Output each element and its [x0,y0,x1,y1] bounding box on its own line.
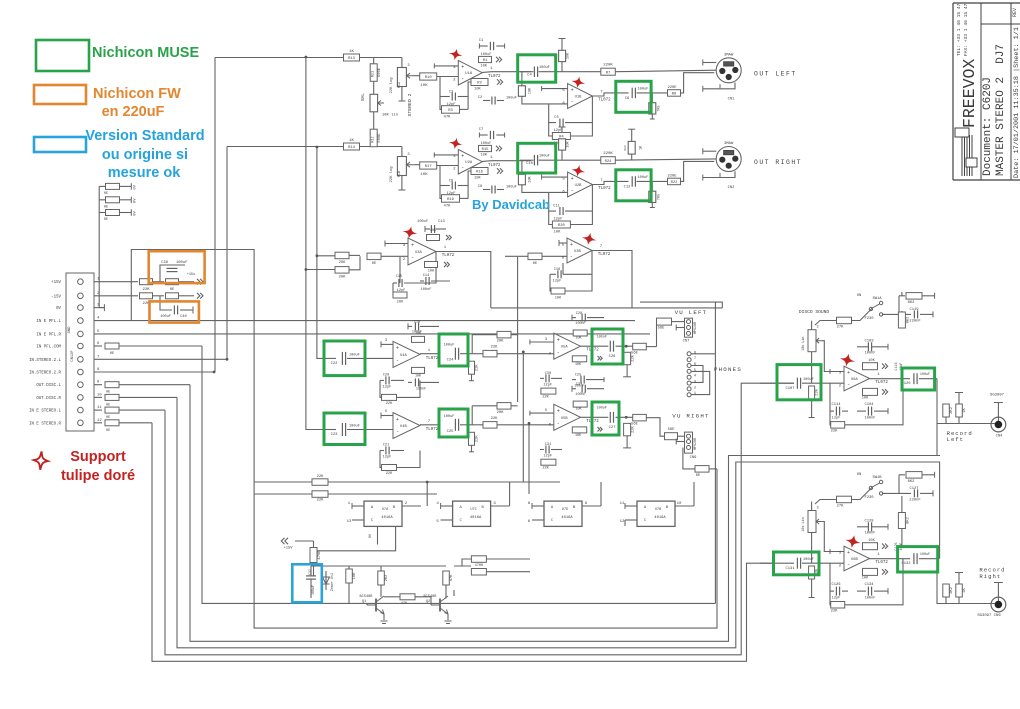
svg-text:10K: 10K [480,65,487,69]
svg-text:6: 6 [694,363,696,367]
svg-text:10K: 10K [567,140,571,147]
svg-text:12: 12 [620,520,625,524]
svg-text:22K: 22K [632,425,636,433]
svg-text:10K: 10K [415,374,422,378]
svg-text:BC548B: BC548B [424,595,438,599]
svg-text:TL072: TL072 [598,253,611,257]
svg-text:-: - [570,254,573,260]
svg-text:MASTER STEREO 2 DJ7: MASTER STEREO 2 DJ7 [995,44,1007,176]
svg-text:5: 5 [694,369,696,373]
svg-text:22K: 22K [386,402,393,406]
svg-text:ON: ON [857,294,862,298]
svg-text:100nF: 100nF [416,387,426,391]
svg-text:22K: 22K [491,417,499,421]
svg-text:100uF: 100uF [349,353,360,357]
svg-text:R1: R1 [483,59,488,63]
svg-text:F230: F230 [864,317,874,321]
svg-text:C27: C27 [609,426,616,430]
svg-text:U7B: U7B [655,508,662,512]
svg-text:C8: C8 [478,185,482,189]
svg-text:4016A: 4016A [470,516,482,520]
svg-text:C126: C126 [831,583,841,587]
svg-text:12pF: 12pF [832,417,841,421]
svg-text:100uF: 100uF [803,378,814,382]
svg-text:47K: 47K [401,602,408,606]
svg-text:220E: 220E [667,86,677,90]
svg-text:100uF: 100uF [638,176,649,180]
svg-text:Q2: Q2 [426,600,430,604]
svg-text:tulipe doré: tulipe doré [61,468,135,484]
svg-text:100uF: 100uF [444,415,455,419]
svg-text:U2B: U2B [575,184,583,188]
svg-text:R13: R13 [348,57,356,61]
svg-text:+: + [570,242,573,248]
svg-text:OUT.DISC.L: OUT.DISC.L [36,384,61,388]
svg-text:-: - [571,187,574,193]
svg-text:mesure ok: mesure ok [108,165,181,181]
svg-text:10K: 10K [575,408,582,412]
svg-text:10K: 10K [480,154,487,158]
svg-text:100uF: 100uF [311,585,315,595]
svg-text:20K: 20K [339,276,347,280]
svg-text:4: 4 [694,375,696,379]
svg-text:C4: C4 [527,74,532,78]
svg-text:10K: 10K [862,577,869,581]
svg-text:CN12F: CN12F [71,350,75,362]
svg-text:10K: 10K [474,176,481,180]
svg-text:12pF: 12pF [543,455,552,459]
svg-text:0E: 0E [104,218,108,222]
svg-text:TL072: TL072 [442,254,455,258]
svg-text:100uF: 100uF [803,558,814,562]
svg-text:0V: 0V [134,198,138,203]
svg-text:Nichicon FW: Nichicon FW [93,86,181,102]
svg-text:56E: 56E [631,423,638,427]
svg-text:Zener 6v2: Zener 6v2 [330,573,335,591]
svg-text:C25: C25 [447,430,455,434]
svg-text:OUT.DISC.R: OUT.DISC.R [36,397,61,401]
svg-text:220K: 220K [603,64,613,68]
svg-text:12pF: 12pF [383,385,392,389]
svg-text:TL072: TL072 [598,187,611,191]
svg-text:8K2: 8K2 [906,516,910,524]
svg-text:7: 7 [694,357,696,361]
svg-text:F230: F230 [864,496,874,500]
svg-text:C14: C14 [423,274,429,278]
svg-text:C40: C40 [180,315,188,319]
svg-text:Support: Support [70,449,126,465]
svg-text:C31: C31 [545,443,551,447]
svg-text:MPS20R: MPS20R [694,438,698,450]
svg-text:13: 13 [347,520,352,524]
svg-text:C107: C107 [785,387,794,391]
svg-text:10K: 10K [529,175,533,182]
svg-text:22K log: 22K log [389,78,394,94]
svg-text:22K: 22K [816,388,820,396]
svg-text:10K: 10K [420,173,428,177]
svg-text:100uF: 100uF [506,186,517,190]
svg-text:R17: R17 [425,165,432,169]
svg-text:R11: R11 [372,71,376,77]
svg-text:100uF: 100uF [444,344,455,348]
svg-text:10K: 10K [474,87,481,91]
svg-text:+15u: +15u [187,273,196,277]
svg-text:56E: 56E [631,352,638,356]
svg-text:10K: 10K [430,229,437,233]
svg-text:22K: 22K [542,466,549,470]
svg-text:C11: C11 [553,205,560,209]
svg-text:R3: R3 [448,109,453,113]
svg-text:11: 11 [97,406,102,410]
svg-text:C5: C5 [554,116,558,120]
svg-text:470E: 470E [318,550,322,560]
svg-text:C131: C131 [785,567,795,571]
svg-text:3MAW: 3MAW [724,142,734,146]
svg-text:PCB: PCB [397,171,401,177]
svg-text:8K2: 8K2 [906,316,910,324]
svg-text:100nF: 100nF [575,322,585,326]
svg-text:R12: R12 [372,136,376,142]
svg-text:12pF: 12pF [553,280,562,284]
svg-text:U5B: U5B [561,417,569,421]
svg-text:1: 1 [694,392,696,396]
svg-text:-15V: -15V [51,295,61,299]
svg-text:12pF: 12pF [447,103,456,107]
svg-text:+: + [396,346,399,352]
svg-text:IN E PFL.L: IN E PFL.L [36,320,61,324]
svg-text:U6B: U6B [851,558,859,562]
svg-text:22K: 22K [317,499,325,503]
svg-text:+: + [461,153,464,159]
svg-text:R20: R20 [558,224,566,228]
svg-text:100uF: 100uF [597,336,607,340]
svg-text:1K: 1K [349,50,354,54]
svg-text:10k Lin: 10k Lin [801,337,806,351]
svg-text:TL072: TL072 [488,164,501,168]
svg-text:C16: C16 [554,268,560,272]
svg-text:10K: 10K [575,336,582,340]
svg-text:10K: 10K [415,332,422,336]
svg-text:-: - [396,358,399,364]
svg-text:C30: C30 [545,372,551,376]
svg-text:IN.STEREO.2.R: IN.STEREO.2.R [29,372,61,376]
svg-text:100uF: 100uF [160,315,171,319]
svg-text:+: + [571,176,574,182]
svg-text:10K: 10K [567,52,571,59]
svg-text:U4A: U4A [400,354,408,358]
svg-text:3: 3 [694,381,696,385]
svg-text:56E: 56E [668,428,676,432]
svg-text:OUT RIGHT: OUT RIGHT [754,159,802,166]
svg-text:TL072: TL072 [598,99,611,103]
svg-text:U6A: U6A [851,378,859,382]
svg-text:10k Lin: 10k Lin [801,517,806,531]
svg-text:22K: 22K [476,435,480,443]
svg-text:R10: R10 [425,76,433,80]
svg-text:C134: C134 [864,583,874,587]
svg-text:22K: 22K [542,395,549,399]
svg-text:TL072: TL072 [875,381,888,385]
svg-text:C6: C6 [625,97,630,101]
svg-text:C114: C114 [831,403,841,407]
svg-text:11: 11 [620,502,625,506]
svg-text:CN7: CN7 [683,340,690,344]
svg-text:IN.STEREO.2.L: IN.STEREO.2.L [29,359,61,363]
svg-text:IN E PFL.R: IN E PFL.R [36,333,61,337]
svg-text:R24: R24 [605,160,613,164]
svg-text:600E: 600E [378,67,382,77]
svg-text:1K: 1K [963,408,967,413]
svg-text:100uF: 100uF [920,553,930,557]
svg-text:BC548B: BC548B [360,595,374,599]
svg-text:0E: 0E [106,429,110,433]
svg-text:+: + [411,243,414,249]
svg-text:100uF: 100uF [176,261,188,265]
svg-text:Date: 17/01/2001 11:35:18 |She: Date: 17/01/2001 11:35:18 |Sheet: 1/1 [1013,27,1020,178]
svg-text:1K: 1K [963,588,967,593]
svg-text:22K: 22K [831,610,839,614]
svg-text:10K: 10K [862,397,869,401]
svg-text:0V: 0V [134,184,138,189]
svg-text:C25: C25 [575,373,581,377]
svg-text:20K: 20K [497,411,505,415]
svg-text:C132: C132 [901,562,911,566]
svg-text:VU RIGHT: VU RIGHT [672,412,709,419]
svg-text:100nF: 100nF [421,288,432,292]
svg-text:+: + [557,409,560,415]
svg-text:C24: C24 [447,359,455,363]
svg-text:U7D: U7D [562,508,568,512]
svg-text:47K: 47K [443,116,451,120]
svg-text:C20: C20 [383,373,389,377]
svg-text:-: - [411,255,414,261]
svg-text:C103: C103 [864,340,874,344]
svg-text:C2: C2 [478,96,482,100]
svg-text:22K: 22K [386,472,393,476]
svg-text:C3: C3 [449,91,453,95]
svg-text:100uF: 100uF [638,88,649,92]
svg-text:C32: C32 [309,569,313,575]
svg-text:10: 10 [97,393,102,397]
svg-text:R15: R15 [482,148,490,152]
svg-text:U7C: U7C [470,508,476,512]
svg-text:PCA: PCA [397,82,401,88]
svg-text:+: + [847,370,850,376]
svg-text:3MAW: 3MAW [724,54,734,58]
svg-text:IN PFL.COM: IN PFL.COM [36,346,61,350]
svg-text:20K: 20K [339,261,347,265]
svg-text:-: - [396,429,399,435]
svg-text:4016A: 4016A [381,516,393,520]
svg-text:12pF: 12pF [832,597,841,601]
svg-text:220nF: 220nF [909,499,921,503]
svg-text:0V: 0V [134,211,138,216]
svg-text:OUT LEFT: OUT LEFT [754,71,797,78]
svg-text:C7: C7 [479,128,484,132]
svg-text:TL072: TL072 [488,75,501,79]
svg-text:27K: 27K [837,326,845,330]
svg-text:Document: C620J: Document: C620J [982,77,994,176]
svg-text:MPS20R: MPS20R [694,322,698,334]
svg-text:100uF: 100uF [417,220,428,224]
svg-text:U3A: U3A [415,251,423,255]
svg-text:DISCO SOUND: DISCO SOUND [799,309,830,315]
svg-text:C23: C23 [331,433,339,437]
svg-text:12pF: 12pF [383,456,392,460]
svg-text:2K2: 2K2 [950,586,954,594]
svg-text:TL072: TL072 [426,428,439,432]
svg-text:R16: R16 [476,171,484,175]
svg-text:SW1A: SW1A [872,297,882,301]
svg-text:VU LEFT: VU LEFT [675,309,708,316]
svg-text:220nF: 220nF [909,320,921,324]
svg-text:Q1: Q1 [362,600,366,604]
svg-text:100uF: 100uF [920,373,930,377]
svg-text:10K: 10K [554,231,561,235]
svg-text:-: - [557,421,560,427]
svg-text:U1A: U1A [465,72,473,76]
svg-text:C3?: C3? [576,383,582,387]
svg-text:0E: 0E [104,205,108,209]
svg-text:C39: C39 [161,261,169,265]
svg-text:22K: 22K [831,430,839,434]
svg-text:C1: C1 [479,39,484,43]
svg-text:U4B: U4B [400,425,408,429]
svg-text:C22: C22 [331,362,339,366]
svg-text:U1B: U1B [575,96,583,100]
svg-text:ou origine si: ou origine si [102,147,188,163]
svg-text:12: 12 [97,419,102,423]
svg-text:U3B: U3B [574,250,582,254]
svg-text:4016A: 4016A [561,516,573,520]
svg-text:10K: 10K [529,87,533,94]
svg-text:TL072: TL072 [875,561,888,565]
svg-text:-: - [461,165,464,171]
svg-text:22K: 22K [491,346,499,350]
svg-text:7K5: 7K5 [658,194,662,200]
svg-text:SG3097 CN6: SG3097 CN6 [977,614,1001,618]
svg-text:+: + [557,338,560,344]
svg-text:R2: R2 [477,82,482,86]
svg-text:2: 2 [694,386,696,390]
svg-text:TL072: TL072 [426,357,439,361]
svg-text:10: 10 [677,502,682,506]
svg-text:-: - [847,561,850,567]
svg-text:C28: C28 [576,312,582,316]
svg-text:IN E STEREO.L: IN E STEREO.L [29,410,61,414]
svg-text:SW1B: SW1B [872,476,882,480]
svg-text:0E: 0E [110,352,115,356]
svg-text:100uF: 100uF [539,155,550,159]
svg-text:C13: C13 [438,220,446,224]
svg-text:CN4: CN4 [996,435,1004,439]
svg-text:8K2: 8K2 [908,480,916,484]
svg-text:R22: R22 [671,181,679,185]
svg-text:CN9: CN9 [690,456,698,460]
svg-text:47K: 47K [450,574,454,582]
svg-text:56E: 56E [658,327,666,331]
svg-text:+: + [396,417,399,423]
svg-text:Version Standard: Version Standard [85,128,204,144]
svg-text:-: - [571,99,574,105]
svg-text:3: 3 [817,326,819,330]
svg-text:U5A: U5A [561,346,569,350]
svg-text:7K5: 7K5 [658,105,662,111]
svg-text:R19: R19 [447,198,455,202]
svg-text:27K: 27K [837,505,845,509]
svg-text:Right: Right [979,573,1001,580]
svg-text:100uF: 100uF [597,407,607,411]
svg-text:22K: 22K [632,354,636,362]
svg-text:Left: Left [947,436,964,443]
svg-text:20K: 20K [497,340,505,344]
svg-text:0E: 0E [372,262,377,266]
svg-text:10K: 10K [555,297,562,301]
svg-text:TEL: +33 1 46 15 47: TEL: +33 1 46 15 47 [956,3,962,56]
svg-text:U7A: U7A [382,508,389,512]
svg-text:220K: 220K [603,152,613,156]
svg-text:10K: 10K [353,572,357,580]
svg-text:C128: C128 [864,520,874,524]
svg-text:10K: 10K [420,84,428,88]
svg-text:C10: C10 [526,162,534,166]
svg-text:47K: 47K [443,205,451,209]
svg-text:2K2: 2K2 [950,406,954,414]
svg-text:R23: R23 [624,145,627,150]
svg-text:SG3097: SG3097 [990,394,1005,398]
svg-text:+15V: +15V [51,281,61,285]
svg-text:Nichicon MUSE: Nichicon MUSE [92,45,199,61]
svg-text:C15: C15 [396,275,402,279]
svg-text:R9: R9 [672,93,677,97]
svg-text:100uF: 100uF [539,66,550,70]
svg-text:CN2: CN2 [728,186,736,190]
svg-text:FAX: +33 1 46 15 47: FAX: +33 1 46 15 47 [963,3,969,56]
svg-text:22K: 22K [476,364,480,372]
svg-text:STEREO 2: STEREO 2 [407,93,413,116]
svg-text:220E: 220E [667,175,677,179]
svg-text:100uF: 100uF [349,425,360,429]
svg-text:0E: 0E [170,288,175,292]
svg-text:22K: 22K [317,475,325,479]
svg-text:CN1: CN1 [728,98,736,102]
svg-text:+: + [571,88,574,94]
svg-text:C9: C9 [449,180,453,184]
svg-text:C12: C12 [624,186,632,190]
svg-text:+: + [461,64,464,70]
svg-text:-: - [461,76,464,82]
svg-text:U2A: U2A [465,161,473,165]
svg-text:10K: 10K [575,363,582,367]
svg-text:10K: 10K [397,301,404,305]
svg-text:IN E STEREO.R: IN E STEREO.R [29,422,61,426]
svg-text:3: 3 [817,507,819,511]
svg-text:+15V: +15V [283,547,293,551]
svg-text:C19: C19 [414,320,420,324]
svg-text:1K: 1K [349,139,354,143]
svg-text:0E: 0E [104,192,108,196]
svg-text:600E: 600E [378,133,382,143]
svg-text:By Davidcab: By Davidcab [472,197,550,212]
svg-text:8K2: 8K2 [908,301,916,305]
svg-text:22K log: 22K log [389,167,394,183]
svg-text:R14: R14 [348,146,356,150]
svg-text:REV: REV [1012,8,1018,17]
svg-text:470K: 470K [475,564,484,568]
svg-text:4016A: 4016A [654,516,666,520]
svg-text:10K: 10K [575,434,582,438]
svg-text:10K: 10K [428,270,435,274]
